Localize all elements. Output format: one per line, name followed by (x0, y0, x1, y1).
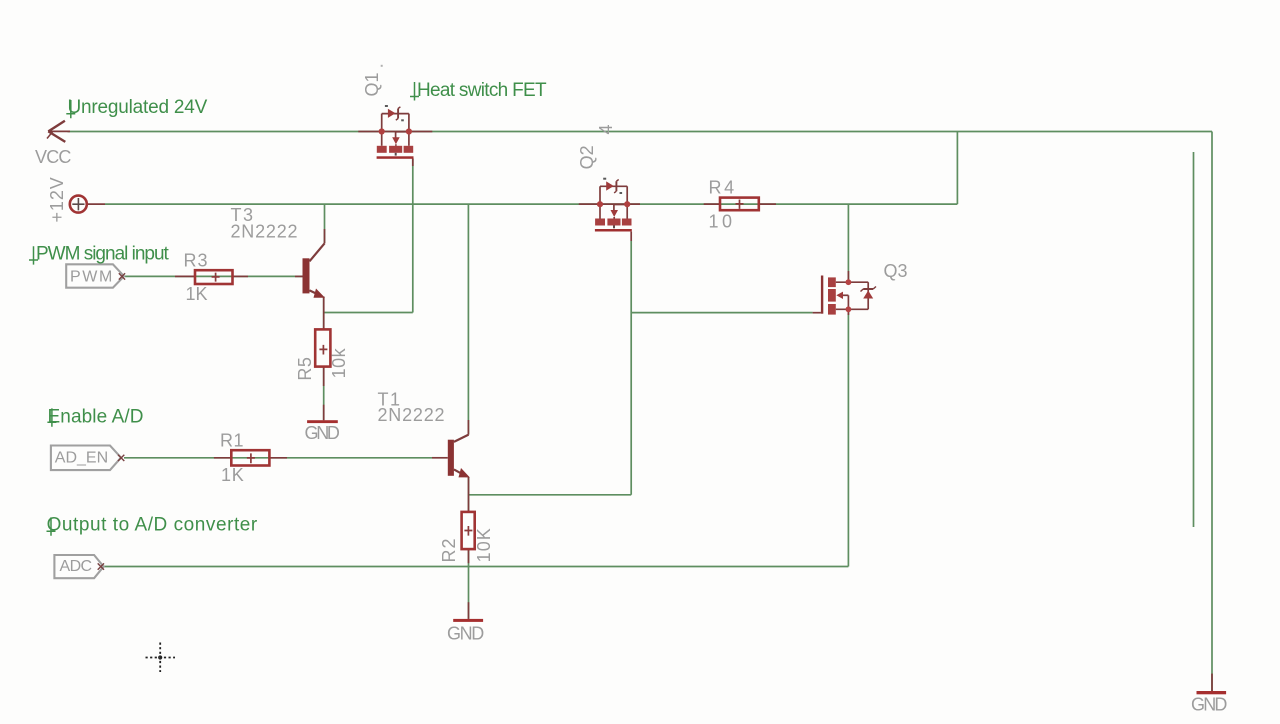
svg-text:ADC: ADC (60, 558, 92, 575)
svg-text:AD_EN: AD_EN (55, 450, 108, 467)
svg-text:Q2: Q2 (577, 145, 597, 169)
svg-text:R3: R3 (184, 251, 209, 271)
svg-text:2N2222: 2N2222 (231, 222, 299, 242)
svg-text:Unregulated 24V: Unregulated 24V (68, 97, 208, 118)
svg-text:10K: 10K (474, 527, 494, 562)
svg-text:R1: R1 (220, 431, 244, 451)
svg-text:Output to A/D converter: Output to A/D converter (47, 515, 258, 536)
svg-text:10: 10 (709, 212, 736, 232)
svg-text:+12V: +12V (47, 176, 67, 222)
svg-text:4: 4 (596, 124, 616, 134)
svg-text:R2: R2 (439, 537, 459, 562)
svg-text:VCC: VCC (35, 147, 71, 167)
svg-text:PWM signal input: PWM signal input (36, 243, 170, 264)
svg-text:Heat switch FET: Heat switch FET (417, 80, 547, 101)
svg-text:1K: 1K (186, 284, 208, 304)
svg-text:Q3: Q3 (884, 261, 908, 281)
svg-text:PWM: PWM (70, 269, 114, 286)
svg-text:GND: GND (1191, 695, 1227, 715)
svg-text:GND: GND (305, 423, 340, 443)
svg-text:R5: R5 (295, 357, 315, 381)
svg-text:Q1: Q1 (362, 72, 382, 96)
svg-text:1K: 1K (221, 465, 244, 485)
svg-text:Enable A/D: Enable A/D (48, 406, 144, 427)
svg-text:GND: GND (447, 624, 484, 644)
svg-text:2N2222: 2N2222 (378, 405, 446, 425)
svg-text:10k: 10k (329, 347, 349, 378)
svg-text:R4: R4 (709, 178, 737, 198)
